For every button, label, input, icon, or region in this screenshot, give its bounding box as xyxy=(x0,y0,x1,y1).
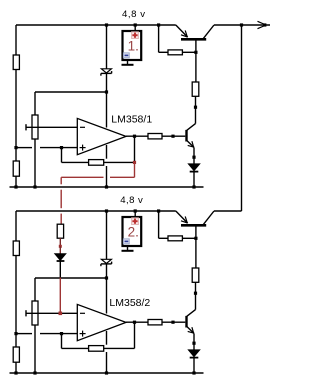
svg-text:LM358/1: LM358/1 xyxy=(111,113,152,125)
svg-text:4,8 v: 4,8 v xyxy=(120,195,143,206)
svg-text:1.: 1. xyxy=(128,38,139,53)
svg-text:4,8 v: 4,8 v xyxy=(122,9,146,20)
svg-text:LM358/2: LM358/2 xyxy=(109,297,150,309)
svg-text:2.: 2. xyxy=(128,224,139,239)
